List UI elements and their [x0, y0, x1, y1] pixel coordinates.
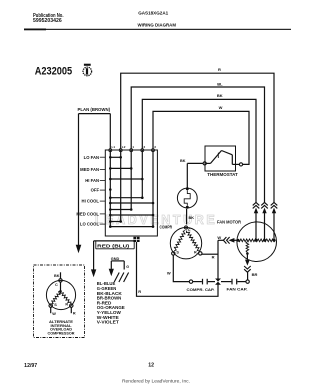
svg-text:HI COOL: HI COOL: [82, 199, 100, 204]
svg-text:COMPR. CAP.: COMPR. CAP.: [187, 287, 215, 292]
svg-text:R: R: [73, 312, 76, 316]
svg-text:W: W: [167, 271, 171, 276]
svg-text:GAS18XG2A1: GAS18XG2A1: [138, 10, 168, 16]
svg-text:LO COOL: LO COOL: [80, 222, 100, 227]
svg-text:OFF: OFF: [91, 188, 100, 193]
svg-text:GND: GND: [111, 257, 120, 261]
svg-text:A232005: A232005: [35, 66, 72, 78]
svg-text:THERMOSTAT: THERMOSTAT: [207, 172, 238, 177]
svg-text:PLAN (BROWN): PLAN (BROWN): [78, 107, 111, 112]
svg-text:BL: BL: [217, 81, 223, 86]
svg-text:MED COOL: MED COOL: [76, 212, 99, 217]
svg-text:V-VIOLET: V-VIOLET: [97, 320, 119, 325]
svg-text:BR: BR: [252, 272, 258, 277]
svg-text:L1: L1: [112, 145, 116, 149]
svg-text:R: R: [138, 289, 141, 294]
svg-text:Rendered by LeadVenture, Inc.: Rendered by LeadVenture, Inc.: [122, 378, 190, 383]
svg-text:COMPR: COMPR: [160, 224, 173, 229]
svg-text:R: R: [65, 303, 68, 307]
svg-text:W: W: [52, 312, 56, 316]
svg-text:L2: L2: [122, 145, 126, 149]
svg-text:R: R: [212, 255, 215, 260]
svg-text:12/97: 12/97: [24, 363, 37, 369]
svg-text:C: C: [55, 283, 58, 287]
svg-text:W: W: [219, 105, 223, 110]
svg-text:COMPRESSOR: COMPRESSOR: [48, 332, 75, 336]
svg-text:G: G: [126, 265, 129, 269]
svg-text:HI FAN: HI FAN: [85, 178, 99, 183]
svg-text:BK: BK: [189, 216, 195, 220]
svg-text:S: S: [176, 251, 179, 255]
svg-text:R: R: [218, 67, 221, 72]
svg-text:BK: BK: [180, 159, 186, 163]
svg-text:BK: BK: [217, 93, 223, 98]
svg-text:W: W: [217, 235, 221, 240]
svg-text:5995203426: 5995203426: [33, 18, 62, 24]
svg-text:BK: BK: [54, 274, 60, 278]
svg-text:FAN CAP.: FAN CAP.: [227, 287, 248, 292]
svg-text:R: R: [194, 251, 197, 255]
svg-text:12: 12: [148, 362, 154, 368]
svg-text:LO FAN: LO FAN: [84, 155, 99, 160]
svg-text:MED FAN: MED FAN: [80, 167, 99, 172]
svg-text:RED (BLU): RED (BLU): [97, 244, 130, 249]
svg-text:FAN MOTOR: FAN MOTOR: [217, 220, 241, 225]
svg-text:WIRING DIAGRAM: WIRING DIAGRAM: [138, 22, 177, 28]
svg-text:C: C: [188, 228, 191, 232]
